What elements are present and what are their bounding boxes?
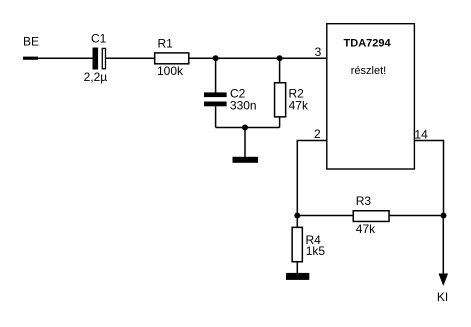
wire R4 to ground symbol bbox=[296, 263, 298, 274]
svg-text:100k: 100k bbox=[157, 64, 184, 78]
junction node C2 tap bbox=[213, 55, 219, 61]
arrow KI (output) bbox=[439, 274, 449, 287]
wire R2 to ground rail bbox=[279, 118, 281, 128]
capacitor C1 bbox=[93, 48, 106, 70]
svg-text:47k: 47k bbox=[289, 98, 309, 112]
resistor R3 bbox=[353, 211, 389, 222]
svg-text:C1: C1 bbox=[91, 32, 107, 46]
svg-text:2,2µ: 2,2µ bbox=[84, 70, 108, 84]
wire pin 14 to output node bbox=[414, 141, 443, 216]
junction node R2 tap bbox=[277, 55, 283, 61]
svg-text:BE: BE bbox=[23, 35, 39, 49]
svg-text:47k: 47k bbox=[356, 222, 376, 236]
capacitor C2 bbox=[204, 92, 227, 106]
resistor R1 bbox=[155, 53, 189, 64]
junction node feedback / R4 bbox=[294, 213, 300, 219]
svg-text:KI: KI bbox=[437, 290, 448, 304]
wire BE to C1 bbox=[38, 57, 93, 59]
ground symbol (R4) bbox=[286, 273, 309, 280]
svg-text:R3: R3 bbox=[356, 194, 372, 208]
wire pin 2 to feedback node bbox=[297, 141, 327, 216]
svg-text:TDA7294: TDA7294 bbox=[344, 37, 392, 49]
svg-text:1k5: 1k5 bbox=[306, 244, 326, 258]
svg-text:R1: R1 bbox=[158, 37, 174, 51]
svg-text:részlet!: részlet! bbox=[351, 65, 386, 77]
ground symbol (input filter) bbox=[233, 157, 259, 163]
wire feedback right segment bbox=[389, 215, 444, 217]
wire C2 to ground rail bbox=[215, 106, 217, 127]
svg-text:2: 2 bbox=[314, 127, 321, 141]
wire output to arrow bbox=[442, 216, 444, 275]
wire C1 to R1 bbox=[106, 57, 155, 59]
wire feedback left segment bbox=[297, 215, 353, 217]
wire C2 branch from node bbox=[215, 58, 217, 92]
svg-text:3: 3 bbox=[315, 45, 322, 59]
svg-text:14: 14 bbox=[414, 128, 428, 142]
resistor R2 bbox=[275, 83, 286, 117]
resistor R4 bbox=[292, 227, 302, 261]
wire node to R4 bbox=[296, 216, 298, 227]
junction node output bbox=[441, 213, 447, 219]
wire R2 branch from node bbox=[279, 58, 281, 82]
svg-text:330n: 330n bbox=[230, 98, 257, 112]
input terminal BE bbox=[23, 57, 38, 60]
wire junction to ground symbol bbox=[244, 128, 246, 158]
op-amp U1 TDA7294 box bbox=[327, 24, 415, 169]
wire R1 to pin 3 of U1 bbox=[190, 57, 328, 59]
junction node ground rail bbox=[242, 125, 248, 131]
wire ground rail bbox=[216, 127, 280, 129]
